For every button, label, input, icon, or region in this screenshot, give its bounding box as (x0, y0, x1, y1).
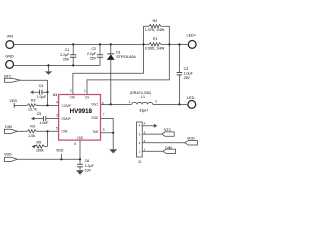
svg-text:VDD: VDD (4, 152, 12, 156)
wire VDD to C6 node (17, 158, 80, 160)
svg-text:GND: GND (91, 116, 99, 120)
svg-text:GND: GND (5, 55, 14, 59)
svg-text:STPS1L60A: STPS1L60A (116, 55, 136, 59)
svg-text:2: 2 (155, 100, 157, 104)
svg-text:10V: 10V (85, 168, 92, 172)
svg-text:1: 1 (128, 100, 130, 104)
flag NTC (left) (4, 74, 20, 82)
svg-text:C3: C3 (184, 67, 189, 71)
wire GND rail (13, 64, 100, 66)
flag DIM (left) (4, 125, 17, 134)
svg-text:R4: R4 (153, 19, 158, 23)
svg-text:R2: R2 (31, 99, 36, 103)
terminal LED- (187, 96, 196, 109)
capacitor C5 (31, 112, 59, 125)
svg-text:CS: CS (85, 96, 89, 100)
svg-text:4: 4 (56, 100, 58, 104)
svg-text:TAB: TAB (92, 130, 98, 134)
svg-text:25V: 25V (184, 76, 191, 80)
svg-text:1.0nF: 1.0nF (39, 121, 49, 125)
svg-text:LED+: LED+ (186, 34, 196, 38)
inductor L1 (128, 91, 157, 113)
resistor R2 (14, 99, 58, 112)
svg-text:HV9918: HV9918 (70, 108, 93, 115)
IC U1 HV9918 box (53, 93, 101, 140)
svg-text:LED-: LED- (187, 96, 196, 100)
svg-text:DIM: DIM (62, 130, 68, 134)
svg-text:1.2µF: 1.2µF (85, 164, 95, 168)
wire J2 pin 1 (142, 150, 163, 152)
svg-text:U1: U1 (53, 93, 57, 97)
svg-text:4: 4 (144, 122, 146, 126)
svg-text:5: 5 (56, 127, 58, 131)
svg-text:VDD: VDD (10, 99, 18, 103)
svg-text:25V: 25V (90, 57, 97, 61)
svg-text:D1: D1 (116, 50, 121, 54)
svg-text:0.39Ω, 1/4W: 0.39Ω, 1/4W (145, 47, 165, 51)
svg-text:1.0k: 1.0k (28, 134, 35, 138)
svg-text:3: 3 (56, 114, 58, 118)
wire SW to L1 (101, 103, 132, 105)
svg-text:DIM: DIM (5, 125, 12, 129)
ground arrow at IC (109, 149, 117, 153)
svg-text:1.07Ω, 1/4W: 1.07Ω, 1/4W (145, 28, 165, 32)
flag VDD (right) (185, 137, 198, 145)
capacitor C3 (177, 44, 194, 104)
junction dots (46, 43, 180, 160)
capacitor C2 (87, 44, 103, 65)
svg-text:R3: R3 (30, 125, 35, 129)
ground arrow on GND rail (45, 65, 52, 74)
resistor R1 (on rail) (145, 37, 165, 51)
net VDD (at R2) (10, 99, 18, 108)
svg-text:33µH: 33µH (139, 109, 148, 113)
svg-text:NTC: NTC (4, 74, 12, 78)
wire J2 pin 3 (142, 133, 161, 135)
capacitor C6 (77, 159, 94, 172)
flag DIM (right) (163, 146, 176, 154)
svg-text:2.2µF: 2.2µF (87, 52, 97, 56)
wire J2 pin 2 (142, 142, 185, 144)
svg-text:COMP: COMP (62, 104, 72, 108)
resistor R3 (17, 125, 58, 138)
wire VDD pin 6 down (79, 140, 81, 164)
svg-text:R5: R5 (37, 141, 42, 145)
svg-text:C2: C2 (91, 47, 96, 51)
svg-text:RAMP: RAMP (62, 117, 71, 121)
flag NTC (right) (162, 128, 174, 136)
svg-text:C1: C1 (65, 48, 70, 52)
svg-text:8: 8 (102, 101, 104, 105)
wire VIN rail right of R1 (161, 43, 189, 45)
svg-text:VIN: VIN (70, 96, 76, 100)
wire GND pin 7 (101, 118, 114, 149)
terminal GND (5, 55, 14, 69)
resistor R4 (parallel loop) (144, 19, 170, 44)
resistor R5 (to ground arrow) (32, 131, 48, 152)
svg-text:VDD: VDD (56, 149, 64, 153)
svg-text:2.2µF: 2.2µF (60, 53, 70, 57)
net VDD tick (on wire) (56, 149, 64, 160)
flag VDD (bottom left) (4, 152, 17, 161)
svg-text:R1: R1 (153, 37, 158, 41)
svg-text:13.7k: 13.7k (28, 107, 37, 111)
svg-text:100k: 100k (36, 148, 44, 152)
wire J2 pin 4 to gnd arrow right (142, 124, 157, 128)
svg-text:J2: J2 (138, 160, 142, 164)
svg-text:VDD: VDD (77, 136, 84, 140)
connector J2 (137, 122, 146, 164)
wire VIN rail (13, 43, 149, 45)
capacitor C4 (30, 84, 48, 99)
svg-text:2: 2 (70, 89, 72, 93)
ground arrow at C6 (76, 170, 84, 174)
wire NTC to COMP node (21, 80, 48, 105)
svg-text:25V: 25V (63, 57, 70, 61)
svg-text:1.0µF: 1.0µF (184, 71, 194, 75)
svg-text:L1: L1 (141, 95, 145, 99)
svg-text:C4: C4 (39, 84, 44, 88)
wire TAB pin 9 (101, 132, 114, 134)
svg-text:VDD: VDD (187, 137, 195, 141)
svg-text:C5: C5 (37, 112, 42, 116)
svg-text:6: 6 (74, 142, 76, 146)
svg-text:7: 7 (103, 112, 105, 116)
diode D1 (107, 44, 136, 104)
wire CS pin to rail (87, 44, 169, 95)
svg-text:NTC: NTC (164, 128, 172, 132)
wire VIN pin to rail (73, 44, 144, 95)
svg-text:1: 1 (84, 89, 86, 93)
svg-text:VIN: VIN (7, 34, 14, 38)
svg-text:C6: C6 (85, 159, 90, 163)
svg-text:1.0µF: 1.0µF (37, 95, 47, 99)
terminal LED+ (186, 34, 196, 49)
wire L1 to LED- (153, 103, 189, 105)
terminal VIN (6, 34, 14, 48)
svg-text:SW1: SW1 (91, 103, 98, 107)
capacitor C1 (60, 44, 76, 65)
svg-text:9: 9 (103, 128, 105, 132)
